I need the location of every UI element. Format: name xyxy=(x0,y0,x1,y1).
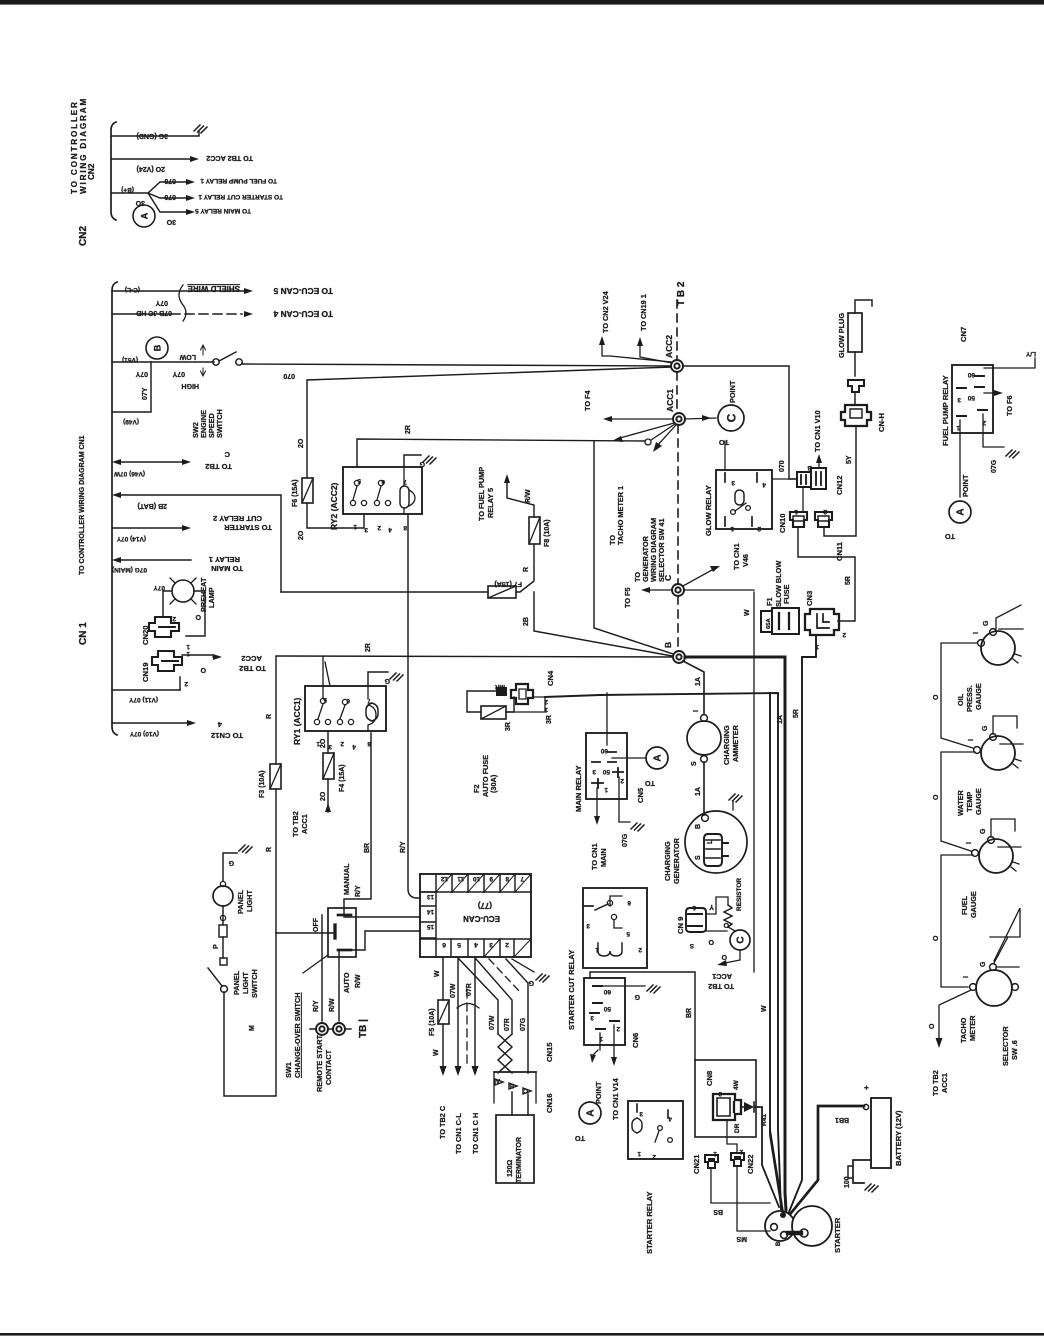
relay RY1 (ACC1) box xyxy=(305,686,386,731)
svg-text:C: C xyxy=(224,450,230,459)
svg-text:CN6: CN6 xyxy=(631,1033,640,1048)
svg-text:REMOTE START: REMOTE START xyxy=(315,1034,324,1092)
wire O terminal to ACC1 xyxy=(645,439,651,445)
ammeter I terminal xyxy=(701,715,708,722)
svg-text:TO FUEL PUMP: TO FUEL PUMP xyxy=(477,467,486,521)
switch SW1 CHANGE-OVER SWITCH box xyxy=(328,908,356,957)
RY2 contact poles xyxy=(354,480,359,485)
svg-text:5: 5 xyxy=(626,930,630,937)
wire ECU pin6 down through F5 xyxy=(442,957,444,1068)
generator plug xyxy=(704,834,722,866)
wire pin2 down to 07G ground xyxy=(619,777,630,822)
svg-text:L: L xyxy=(707,839,714,844)
svg-text:DR: DR xyxy=(734,1123,741,1133)
svg-text:F2: F2 xyxy=(472,784,481,793)
wire CN2 (B+) branch node xyxy=(112,192,148,194)
svg-text:7: 7 xyxy=(403,478,407,485)
svg-text:+: + xyxy=(862,1085,871,1090)
bottom cell slashes xyxy=(484,939,531,957)
svg-text:1: 1 xyxy=(713,1150,717,1157)
svg-text:O: O xyxy=(933,935,940,941)
svg-text:I: I xyxy=(963,976,970,978)
svg-text:07G: 07G xyxy=(991,459,998,473)
svg-text:TO TB2: TO TB2 xyxy=(931,1070,940,1096)
svg-text:3: 3 xyxy=(590,1014,594,1021)
svg-text:1: 1 xyxy=(730,525,734,532)
point circle A main xyxy=(646,747,668,769)
svg-text:CN21: CN21 xyxy=(692,1154,701,1174)
svg-text:GAUGE: GAUGE xyxy=(974,788,983,815)
svg-text:5: 5 xyxy=(457,941,461,948)
svg-text:SWITCH: SWITCH xyxy=(215,409,224,438)
wire CN4 to main relay area xyxy=(506,697,545,712)
wire ECU pin5 down arrow TO CN1 C-L xyxy=(457,957,459,1068)
wire fuel I chain xyxy=(941,855,973,987)
twist arc xyxy=(457,1004,479,1009)
glow relay pins xyxy=(725,473,757,526)
wire F2 loop xyxy=(467,691,496,712)
svg-text:60: 60 xyxy=(600,747,608,754)
wire R41 down to starter xyxy=(758,1107,779,1207)
svg-text:10: 10 xyxy=(472,875,480,882)
svg-text:ACC1: ACC1 xyxy=(940,1073,949,1093)
svg-text:RELAY 5: RELAY 5 xyxy=(486,488,495,518)
bottom rule xyxy=(0,1333,1044,1336)
wire F4 bottom with up arrow TO TB2 ACC1 xyxy=(327,779,329,812)
svg-text:R: R xyxy=(266,714,273,719)
svg-text:CN11: CN11 xyxy=(835,541,844,561)
svg-text:METER: METER xyxy=(968,1015,977,1041)
svg-text:5: 5 xyxy=(357,477,361,484)
connector CN2 bracket xyxy=(111,122,116,220)
svg-text:CN2: CN2 xyxy=(87,163,96,180)
battery plus terminal xyxy=(863,1104,868,1109)
svg-text:MANUAL: MANUAL xyxy=(342,863,351,895)
wire CN9 lower to C circle xyxy=(706,926,727,931)
svg-text:TO CN19 1: TO CN19 1 xyxy=(639,294,648,331)
svg-text:2: 2 xyxy=(757,525,761,532)
svg-text:CUT RELAY 2: CUT RELAY 2 xyxy=(213,514,262,523)
wire F6 top to ACC2 xyxy=(307,367,672,478)
svg-text:07R: 07R xyxy=(504,1018,511,1031)
wire CN19 pin1 to TO TB2 ACC2 arrow xyxy=(182,655,216,657)
svg-text:2: 2 xyxy=(620,777,624,784)
wire CN1 (V11) to CN19 xyxy=(112,689,180,691)
svg-text:2O: 2O xyxy=(298,530,305,540)
wire R to change-over switch wiper xyxy=(276,932,331,934)
ECU-CAN (77) block xyxy=(420,874,531,957)
svg-text:07G: 07G xyxy=(622,833,629,847)
wire F6 bottom to RY2 pin3 xyxy=(307,503,364,528)
svg-text:R/Y: R/Y xyxy=(313,1000,320,1012)
svg-text:I: I xyxy=(966,842,973,844)
svg-text:F7 (15A): F7 (15A) xyxy=(494,580,522,587)
wire lamp left to CN20 pin 2 xyxy=(163,591,172,617)
svg-text:G: G xyxy=(228,859,234,866)
wire RY2 pin7 to ground xyxy=(404,455,421,467)
label TO TACHO METER 1 xyxy=(608,486,625,545)
label PANEL LIGHT xyxy=(236,889,254,914)
wire fuse holder to CN10 xyxy=(802,487,804,512)
svg-text:3: 3 xyxy=(586,922,590,929)
wire TO STARTER CUT RELAY 1 xyxy=(148,193,188,198)
svg-text:WATER: WATER xyxy=(956,789,965,816)
svg-text:GENERATOR: GENERATOR xyxy=(672,837,681,884)
svg-text:AUTO: AUTO xyxy=(342,972,351,993)
wire F7 right bend up to R corner xyxy=(516,545,534,592)
wire TO CN12 row xyxy=(112,722,189,724)
svg-text:O: O xyxy=(933,794,940,800)
wire DR from CN8 to CN22 xyxy=(727,1120,737,1153)
svg-text:(V51): (V51) xyxy=(122,356,138,363)
terminal ACC2 xyxy=(671,360,683,372)
svg-text:ACC2: ACC2 xyxy=(241,654,262,663)
svg-text:SW1: SW1 xyxy=(284,1062,293,1078)
node B circle xyxy=(146,337,168,359)
svg-text:1: 1 xyxy=(186,650,190,657)
wire TO TACHO METER 1 xyxy=(620,423,674,438)
svg-text:TO TB2: TO TB2 xyxy=(239,664,266,673)
wire pin5 diagonal to twisted pair xyxy=(459,959,498,1034)
svg-text:3R: 3R xyxy=(546,715,553,724)
svg-text:07Y: 07Y xyxy=(153,584,165,591)
connector CN10 xyxy=(790,512,807,527)
svg-text:S: S xyxy=(689,942,694,949)
svg-text:GAUGE: GAUGE xyxy=(969,891,978,918)
svg-text:TO CN12: TO CN12 xyxy=(211,731,243,740)
svg-text:M: M xyxy=(249,1025,256,1031)
wire RY1 pin3 to F4 xyxy=(327,731,329,753)
svg-text:LIGHT: LIGHT xyxy=(245,890,254,912)
label SW2 ENGINE SPEED SWITCH xyxy=(191,409,224,438)
svg-text:STARTER: STARTER xyxy=(833,1217,842,1253)
svg-text:2: 2 xyxy=(377,524,381,531)
svg-text:1: 1 xyxy=(353,523,357,530)
svg-text:1A: 1A xyxy=(695,787,702,796)
connector CN20 xyxy=(149,617,179,637)
wire CN2 pin 3G GND xyxy=(112,131,199,136)
svg-text:070: 070 xyxy=(779,460,786,472)
svg-text:V46: V46 xyxy=(741,554,750,567)
svg-text:4: 4 xyxy=(352,743,356,750)
svg-text:TO CN1 C-L: TO CN1 C-L xyxy=(454,1113,463,1154)
starter relay contacts xyxy=(658,1126,663,1131)
svg-text:TO F4: TO F4 xyxy=(583,390,592,411)
svg-text:CHANGE-OVER SWITCH: CHANGE-OVER SWITCH xyxy=(293,992,302,1078)
svg-text:TO CN2 V24: TO CN2 V24 xyxy=(601,290,610,333)
fuse F8 (10A) xyxy=(529,517,540,544)
connector CN6 box xyxy=(584,978,625,1045)
wire from 2R line down diagonal to node B xyxy=(594,441,673,654)
svg-text:R/W: R/W xyxy=(355,974,362,988)
wire thick B to 1A vertical xyxy=(685,656,785,659)
ground at 3G xyxy=(194,125,207,133)
svg-text:1A: 1A xyxy=(695,677,702,686)
svg-text:CN19: CN19 xyxy=(141,663,150,682)
svg-text:ECU-CAN: ECU-CAN xyxy=(463,914,500,923)
svg-text:TO F5: TO F5 xyxy=(623,587,632,608)
wire TO CN19 1 xyxy=(640,345,672,363)
wire TO TB2 C row xyxy=(121,461,184,463)
svg-text:TO FUEL PUMP RELAY 1: TO FUEL PUMP RELAY 1 xyxy=(200,177,277,184)
svg-text:B: B xyxy=(695,824,702,829)
svg-text:07W: 07W xyxy=(489,1015,496,1030)
wire 070 from ACC2 to fuse holder xyxy=(683,366,797,479)
svg-text:(C-L): (C-L) xyxy=(125,286,140,293)
svg-text:13: 13 xyxy=(426,893,434,900)
wire 2B horizontal from CN1 xyxy=(281,591,488,593)
wire CN6 60 to ground xyxy=(602,985,645,987)
svg-text:3: 3 xyxy=(957,396,961,403)
svg-text:07G: 07G xyxy=(520,1017,527,1031)
label SELECTOR SW.6 xyxy=(1001,1026,1019,1066)
point circle A starter cut xyxy=(579,1102,601,1124)
svg-text:TERMINATOR: TERMINATOR xyxy=(516,1137,523,1183)
svg-text:O: O xyxy=(723,921,729,928)
gauge OIL PRESS GAUGE xyxy=(981,631,1015,665)
svg-text:TO CONTROLLER WIRING DIAGRAM: TO CONTROLLER WIRING DIAGRAM CN1 xyxy=(79,435,86,575)
connector CN9 xyxy=(686,908,706,932)
svg-text:6: 6 xyxy=(627,899,631,906)
TB2 dashed bus xyxy=(677,300,678,651)
wire CN10 down right to 5R xyxy=(798,527,855,621)
svg-text:C: C xyxy=(725,413,739,422)
wire CN6 pin2 down arrow TO CN1 V14 xyxy=(613,1025,615,1058)
generator CHARGING GENERATOR xyxy=(685,811,747,873)
wire CN3 pin1 down to 5R vertical xyxy=(789,635,816,1212)
relay RY2 (ACC2) box xyxy=(343,467,422,514)
wire resistor to C xyxy=(728,927,735,931)
wire TO CN1 V46 xyxy=(683,570,712,586)
svg-text:1: 1 xyxy=(794,508,798,515)
svg-text:(V11) 07Y: (V11) 07Y xyxy=(128,696,158,703)
wire AUTO to ECU pin15 xyxy=(344,931,420,950)
wire 3R from CN4 to right vertical xyxy=(545,693,781,1209)
label TO TB2 ACC1 xyxy=(708,972,734,991)
terminal B xyxy=(673,651,685,663)
RY1 pin labels xyxy=(316,696,371,750)
ground at main relay xyxy=(631,823,644,831)
svg-text:SELECTOR: SELECTOR xyxy=(1001,1026,1010,1066)
svg-text:2R: 2R xyxy=(405,425,412,434)
svg-text:LOW: LOW xyxy=(179,353,196,360)
svg-text:CN7: CN7 xyxy=(959,327,968,342)
connector CN8 box xyxy=(695,1060,756,1137)
label OIL PRESS GAUGE xyxy=(956,683,983,712)
svg-text:3G (GND): 3G (GND) xyxy=(137,132,169,139)
svg-text:2O (V24): 2O (V24) xyxy=(137,165,165,172)
fuse F5 (10A) xyxy=(438,1000,449,1024)
svg-text:2: 2 xyxy=(842,631,846,638)
label TO TB2 ACC1 xyxy=(931,1070,949,1096)
svg-text:MAIN: MAIN xyxy=(599,848,608,867)
fusible link 100 xyxy=(848,1166,853,1178)
point circle A fuel pump xyxy=(949,501,971,523)
svg-text:TO CN1 C H: TO CN1 C H xyxy=(471,1113,480,1154)
resistor RESISTOR xyxy=(724,905,732,927)
shield arc xyxy=(179,285,186,321)
wire main relay top to 3R line xyxy=(606,693,608,745)
gauge TACHO METER xyxy=(976,970,1012,1006)
svg-text:A: A xyxy=(653,754,664,761)
svg-text:120Ω: 120Ω xyxy=(507,1159,514,1177)
starter shaft xyxy=(788,1231,801,1235)
svg-text:G: G xyxy=(528,979,534,986)
label SW1 CHANGE-OVER SWITCH xyxy=(284,992,302,1078)
label REMOTE START CONTACT xyxy=(315,1034,333,1092)
svg-text:B: B xyxy=(153,344,163,351)
fuse F3 (10A) xyxy=(270,764,281,789)
svg-text:BR: BR xyxy=(364,843,371,853)
wire TO ECU-CAN 5 xyxy=(112,290,246,292)
svg-text:4: 4 xyxy=(474,941,478,948)
wire panel light switch to R wire xyxy=(224,933,276,1096)
svg-text:GLOW RELAY: GLOW RELAY xyxy=(704,485,713,536)
relay GLOW RELAY box xyxy=(716,470,772,529)
connector CN19 xyxy=(152,651,182,671)
svg-text:07Y: 07Y xyxy=(155,299,168,306)
wire TO MAIN RELAY 5 xyxy=(148,193,188,212)
svg-text:B: B xyxy=(663,642,673,648)
label PREHEAT LAMP xyxy=(199,577,216,612)
svg-text:S: S xyxy=(691,761,698,766)
svg-text:070: 070 xyxy=(283,372,295,379)
svg-text:60: 60 xyxy=(967,371,975,378)
svg-text:O: O xyxy=(929,1023,936,1029)
label TO CONTROLLER WIRING DIAGRAM CN2 xyxy=(70,97,96,194)
svg-text:L/Y: L/Y xyxy=(1025,350,1036,357)
wire RY2 pin8 long vertical down to ECU-CAN xyxy=(408,514,420,898)
wire F8 top to fuel pump relay 5 arrow xyxy=(507,481,534,517)
svg-text:SWITCH: SWITCH xyxy=(250,969,259,998)
svg-text:3R: 3R xyxy=(505,722,512,731)
wire 2R from RY2 pin5 xyxy=(357,439,645,467)
svg-text:GLOW PLUG: GLOW PLUG xyxy=(837,313,846,358)
svg-text:(V49): (V49) xyxy=(123,418,139,425)
svg-text:SW .6: SW .6 xyxy=(1010,1040,1019,1060)
wire CN9 to resistor xyxy=(706,897,728,914)
wire branch down to (V49) xyxy=(112,362,151,412)
svg-text:07Y: 07Y xyxy=(135,370,148,377)
svg-text:TO MAIN RELAY 5: TO MAIN RELAY 5 xyxy=(195,207,251,214)
svg-text:W: W xyxy=(433,1049,440,1056)
svg-text:AMMETER: AMMETER xyxy=(731,724,740,762)
svg-text:G: G xyxy=(980,828,987,834)
RY1 contact poles xyxy=(320,698,325,703)
wire TO FUEL PUMP RELAY 1 xyxy=(148,182,188,193)
auto contact bar xyxy=(338,949,351,952)
svg-text:CN12: CN12 xyxy=(835,476,844,495)
svg-text:ACC1: ACC1 xyxy=(665,389,675,412)
svg-text:RY2 (ACC2): RY2 (ACC2) xyxy=(329,482,339,530)
manual contact bar xyxy=(338,914,351,917)
label TO FUEL PUMP RELAY 5 xyxy=(477,467,495,521)
svg-text:2: 2 xyxy=(638,946,642,953)
svg-text:CN20: CN20 xyxy=(141,626,150,645)
label WATER TEMP GAUGE xyxy=(956,788,983,816)
wire arrow TO GENERATOR xyxy=(657,425,676,446)
svg-text:CN5: CN5 xyxy=(636,787,645,803)
svg-text:CONTACT: CONTACT xyxy=(324,1049,333,1085)
svg-text:TO: TO xyxy=(645,779,655,788)
terminal C xyxy=(672,584,684,596)
wire RY1 pin7 to ground xyxy=(368,672,388,686)
wire CN19 pin2 to CN1 (V11) xyxy=(179,677,181,690)
svg-text:4: 4 xyxy=(388,526,392,533)
svg-text:O: O xyxy=(195,613,201,620)
svg-text:POINT: POINT xyxy=(961,474,970,497)
inline connector xyxy=(219,925,227,937)
svg-text:TO ECU-CAN 5: TO ECU-CAN 5 xyxy=(273,286,333,296)
svg-text:G: G xyxy=(634,993,640,1000)
svg-text:R: R xyxy=(266,847,273,852)
starter relay coil xyxy=(632,1118,642,1133)
svg-text:070: 070 xyxy=(164,193,176,200)
connector CN11 xyxy=(815,512,832,527)
fuse F1 slow blow xyxy=(761,611,772,632)
starter relay pins xyxy=(637,1104,668,1118)
wire pin2 diagonal 07G xyxy=(506,959,528,1073)
label F1 SLOW BLOW FUSE xyxy=(765,561,791,607)
wiper xyxy=(333,925,336,938)
svg-text:3: 3 xyxy=(731,479,735,486)
svg-text:2: 2 xyxy=(823,508,827,515)
main relay pins xyxy=(592,752,623,788)
svg-text:CN4: CN4 xyxy=(546,670,555,686)
svg-text:2: 2 xyxy=(340,740,344,747)
svg-text:TO STARTER: TO STARTER xyxy=(224,523,272,532)
svg-text:G: G xyxy=(982,725,989,731)
svg-text:TO CN1: TO CN1 xyxy=(732,543,741,570)
wire pin1 down to A point xyxy=(959,420,961,497)
svg-text:HIGH: HIGH xyxy=(182,382,200,389)
svg-text:2O: 2O xyxy=(320,738,327,748)
connector CN-H xyxy=(841,405,871,426)
svg-text:FUEL PUMP RELAY: FUEL PUMP RELAY xyxy=(941,375,950,446)
coil xyxy=(598,943,622,956)
svg-text:TEMP: TEMP xyxy=(965,792,974,812)
label PANEL LIGHT SWITCH xyxy=(232,969,259,998)
svg-text:R/W: R/W xyxy=(525,489,532,503)
wire vertical from y693 down at 770 xyxy=(770,693,782,1211)
svg-text:OFF: OFF xyxy=(313,917,320,932)
wire 070 bus from switch to ACC2 xyxy=(242,364,672,366)
svg-text:8: 8 xyxy=(505,875,509,882)
svg-text:PANEL: PANEL xyxy=(236,889,245,914)
lamp PANEL LIGHT xyxy=(213,886,233,906)
svg-text:(77): (77) xyxy=(477,901,492,910)
svg-text:CHARGING: CHARGING xyxy=(722,725,731,765)
svg-text:TO TB2 ACC2: TO TB2 ACC2 xyxy=(206,154,253,163)
wire 5Y from CN-H down to CN11 xyxy=(824,426,856,536)
glow relay contacts xyxy=(731,510,736,515)
gauge FUEL GAUGE xyxy=(979,839,1013,873)
svg-text:FUEL: FUEL xyxy=(960,895,969,915)
wire 2B (BAT) long row xyxy=(121,495,281,592)
svg-text:BS: BS xyxy=(713,1208,723,1215)
svg-text:O: O xyxy=(708,938,714,945)
svg-text:1: 1 xyxy=(186,643,190,650)
svg-text:TO ECU-CAN 4: TO ECU-CAN 4 xyxy=(273,309,333,319)
CN6 pins xyxy=(590,986,619,1029)
ECU left pin column xyxy=(420,892,436,938)
svg-text:TO CN1 V14: TO CN1 V14 xyxy=(611,1077,620,1120)
wire TO STARTER CUT RELAY 2 xyxy=(112,527,184,529)
starter motor STARTER xyxy=(765,1211,795,1241)
svg-text:8: 8 xyxy=(403,524,407,531)
svg-text:60: 60 xyxy=(603,988,611,995)
svg-text:C: C xyxy=(736,936,747,943)
